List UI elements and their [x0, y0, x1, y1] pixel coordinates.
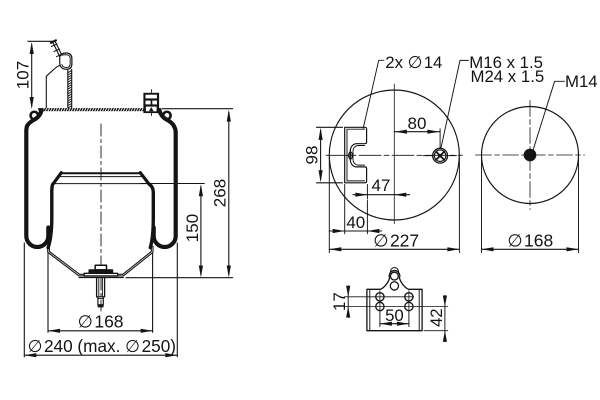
dimension 17 — [347, 297, 349, 307]
piston rod view circle 168 — [482, 107, 579, 204]
svg-text:50: 50 — [385, 306, 404, 325]
svg-text:∅ 240 (max. ∅ 250): ∅ 240 (max. ∅ 250) — [28, 336, 176, 356]
svg-text:40: 40 — [346, 213, 365, 232]
bottom bracket outline — [367, 271, 422, 331]
svg-text:M24 x 1.5: M24 x 1.5 — [471, 67, 545, 86]
dimension 98 — [317, 126, 343, 128]
dimension 40 — [344, 185, 346, 234]
svg-text:98: 98 — [303, 146, 322, 165]
svg-text:80: 80 — [408, 114, 427, 133]
svg-text:268: 268 — [211, 179, 230, 207]
bracket holes — [376, 293, 384, 301]
bead rolls — [31, 112, 39, 120]
air fitting stud — [143, 93, 159, 113]
bellows outline — [26, 110, 48, 247]
svg-text:150: 150 — [183, 214, 202, 242]
svg-text:∅ 227: ∅ 227 — [373, 230, 419, 250]
svg-text:∅ 168: ∅ 168 — [507, 230, 553, 250]
dimension 107 — [28, 40, 54, 42]
fitting symbol M16 — [433, 148, 448, 163]
dimension diameter 168 right — [481, 158, 483, 253]
dimension 42 — [424, 330, 448, 332]
dimension 50 — [379, 312, 381, 327]
bottom reference line — [126, 277, 233, 279]
top plate (hatched) — [39, 108, 233, 110]
skirt plate — [48, 246, 153, 276]
svg-text:∅ 168: ∅ 168 — [78, 312, 124, 332]
plan horizontal centerline — [326, 154, 463, 156]
plan view circle 227 — [329, 90, 459, 220]
svg-text:107: 107 — [14, 61, 33, 89]
centerline left view — [100, 124, 102, 311]
piston — [61, 172, 141, 174]
bracket side profile — [345, 127, 367, 183]
plan vertical centerline — [393, 84, 395, 224]
svg-text:47: 47 — [371, 176, 390, 195]
svg-text:42: 42 — [427, 308, 446, 327]
folded bellows section — [52, 41, 60, 56]
dimension 268 — [228, 113, 230, 275]
dimension diameter 240 max 250 — [23, 243, 25, 357]
dimension 150 — [140, 183, 204, 185]
center stud M-bolt — [95, 265, 106, 270]
dimension 47 — [366, 185, 368, 200]
dimension 80 — [439, 129, 441, 148]
svg-text:M14: M14 — [565, 72, 598, 91]
dimension diameter 168 left — [47, 254, 49, 333]
hole row lines — [344, 296, 413, 298]
dimension diameter 227 — [328, 158, 330, 253]
svg-text:2x ∅ 14: 2x ∅ 14 — [385, 53, 442, 72]
svg-text:17: 17 — [330, 292, 349, 311]
